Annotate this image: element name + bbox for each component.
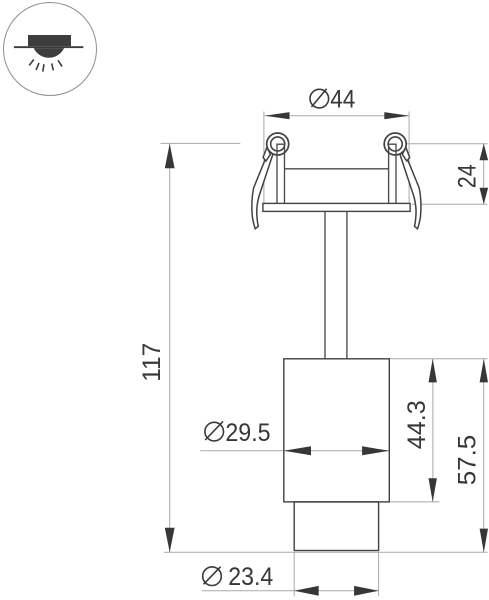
left clip tab: [263, 147, 270, 161]
left clip arm: [252, 149, 274, 229]
arrow 117 down: [165, 528, 175, 553]
ext line body bottom right: [390, 501, 440, 503]
icon light rays: [29, 60, 62, 72]
arrow 57.5 down: [480, 529, 488, 553]
label dia23.4 diameter symbol: [203, 567, 222, 586]
arrow dia44 right: [384, 112, 409, 119]
dim line dia44: [265, 115, 409, 117]
ext line dia44 left: [263, 112, 265, 204]
svg-text:23.4: 23.4: [228, 563, 273, 591]
ext line dia44 right: [408, 112, 410, 204]
dimension lines (thin gray): [170, 116, 484, 591]
ext line body top right: [390, 358, 488, 360]
left pivot circle outer: [267, 133, 289, 155]
dimension extension lines (thin gray): [161, 112, 488, 597]
icon fixture body: [28, 35, 71, 46]
icon ceiling line: [14, 46, 83, 48]
inner shelf line: [285, 168, 389, 170]
svg-text:24: 24: [454, 164, 482, 188]
arrow dia44 left: [265, 112, 290, 119]
arrow 44.3 down: [429, 478, 437, 502]
arrow 117 up: [165, 144, 175, 169]
trim flange: [263, 203, 410, 211]
icon: recessed downlight symbol: [4, 3, 97, 96]
right pivot circle outer: [384, 133, 406, 155]
dim line 24: [483, 144, 485, 204]
right pivot circle inner: [388, 137, 402, 151]
svg-text:29.5: 29.5: [225, 419, 270, 447]
arrow 24 down: [480, 188, 489, 205]
arrow dia23.4 right: [354, 586, 379, 596]
right clip tab: [402, 147, 409, 161]
svg-text:57.5: 57.5: [454, 435, 482, 486]
left wall bar: [277, 144, 285, 203]
arrow dia29.5 right: [362, 446, 389, 455]
stem: [324, 211, 326, 358]
right clip arm: [399, 149, 421, 229]
dim line 57.5: [483, 359, 485, 552]
arrow dia29.5 left: [284, 446, 311, 455]
main body: [284, 359, 390, 502]
bottom cylinder: [294, 502, 378, 551]
dimension texts: [138, 85, 482, 591]
svg-text:44: 44: [330, 85, 355, 113]
arrow 57.5 up: [480, 359, 488, 383]
ext line dia23.4 left: [293, 552, 295, 596]
icon circle: [4, 3, 97, 96]
dim line dia29.5: [200, 450, 389, 452]
ext line 117 top: [161, 142, 241, 144]
dim line dia23.4: [202, 590, 379, 592]
label dia44 diameter symbol: [310, 89, 329, 108]
arrow 44.3 up: [429, 359, 437, 383]
ext line dia23.4 right: [378, 552, 380, 596]
left pivot circle inner: [271, 137, 285, 151]
dimension arrowheads: [165, 112, 488, 596]
arrow dia23.4 left: [294, 586, 319, 596]
icon lamp dome: [34, 48, 64, 58]
fixture outline drawing: [252, 133, 421, 229]
svg-text:44.3: 44.3: [403, 400, 431, 449]
arrow 24 up: [480, 144, 489, 161]
ext line 24 top: [407, 143, 488, 145]
ext line 24 bottom: [412, 203, 488, 205]
right wall bar: [389, 144, 396, 203]
dim line 44.3: [432, 359, 434, 502]
svg-text:117: 117: [138, 343, 166, 382]
dim line 117: [169, 144, 171, 552]
ext line bottom datum: [164, 551, 488, 553]
label dia29.5 diameter symbol: [205, 421, 224, 441]
